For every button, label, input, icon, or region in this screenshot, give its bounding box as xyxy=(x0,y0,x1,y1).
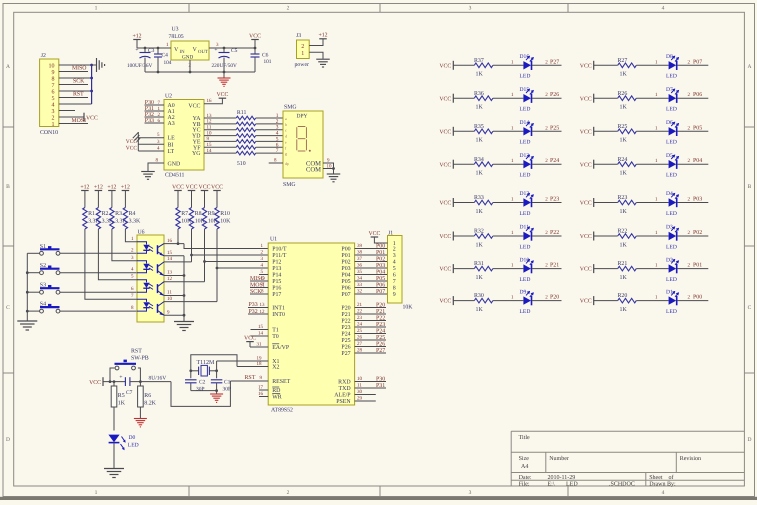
wire R24 to D5 xyxy=(636,158,668,164)
wire U1 P25 xyxy=(355,335,386,341)
switch S2 xyxy=(40,263,60,274)
net label P07 xyxy=(693,59,702,65)
svg-text:220UF/50V: 220UF/50V xyxy=(212,63,237,69)
wire D14 to P25 xyxy=(532,125,562,131)
svg-text:EA/VP: EA/VP xyxy=(272,345,290,351)
svg-text:PSEN: PSEN xyxy=(336,399,351,405)
svg-text:P15: P15 xyxy=(272,279,281,285)
svg-text:2: 2 xyxy=(287,490,290,496)
wire U2 VCC pin16 xyxy=(204,98,222,104)
junction S2 rail xyxy=(26,271,29,274)
svg-text:LED: LED xyxy=(520,74,531,80)
svg-text:R30: R30 xyxy=(474,293,484,299)
net label VCC (U2 LT) xyxy=(126,146,138,152)
wire U6 emitters to ground xyxy=(164,256,184,321)
svg-text:dp: dp xyxy=(285,162,289,166)
ground (U6 emitters) xyxy=(174,322,194,331)
wire VCC to R21 xyxy=(594,268,618,270)
wire J2 pin8 to bus xyxy=(59,77,92,79)
wire U2 BI xyxy=(138,139,164,145)
svg-text:1K: 1K xyxy=(476,171,484,177)
svg-text:P03: P03 xyxy=(693,197,702,203)
svg-text:R3: R3 xyxy=(115,211,122,217)
power port VCC (R7) xyxy=(172,184,184,207)
svg-text:P23: P23 xyxy=(550,197,559,203)
svg-text:R32: R32 xyxy=(474,229,484,235)
LED D11 xyxy=(520,225,534,251)
power port VCC (LED row P06) xyxy=(580,94,594,103)
LED D16 xyxy=(520,54,534,80)
svg-text:LED: LED xyxy=(666,140,677,146)
svg-text:Title: Title xyxy=(519,434,530,441)
wire U1 WR stub xyxy=(258,391,268,397)
LED D13 xyxy=(520,153,534,179)
svg-text:1K: 1K xyxy=(476,105,484,111)
wire VCC to J1 pin1 xyxy=(374,237,387,243)
net label P05 xyxy=(693,125,702,131)
wire R31 to D10 xyxy=(493,263,524,269)
svg-text:16: 16 xyxy=(167,238,173,244)
connector J2 (CON10) xyxy=(40,53,59,136)
svg-text:1: 1 xyxy=(95,490,98,496)
decoder U2 CD4511 xyxy=(164,94,204,179)
wire J3 pin1 to ground xyxy=(309,52,323,59)
ground (U3, red) xyxy=(218,72,231,86)
svg-text:VCC: VCC xyxy=(86,115,98,121)
svg-text:C1: C1 xyxy=(224,379,231,385)
wire D12 to P23 xyxy=(532,197,562,203)
svg-text:P00: P00 xyxy=(376,243,385,249)
svg-text:A: A xyxy=(748,64,752,70)
svg-text:23: 23 xyxy=(357,315,363,321)
svg-text:R23: R23 xyxy=(618,195,628,201)
svg-text:VCC: VCC xyxy=(580,63,592,69)
svg-text:P07: P07 xyxy=(693,59,702,65)
svg-text:R2: R2 xyxy=(102,211,109,217)
svg-text:R20: R20 xyxy=(618,293,628,299)
wire D9 to P20 xyxy=(532,295,562,301)
svg-text:P14: P14 xyxy=(272,273,281,279)
svg-text:AT89S52: AT89S52 xyxy=(271,408,293,414)
wire S1 to U6 xyxy=(60,252,137,254)
U2 output pin numbers xyxy=(207,113,213,154)
capacitor C6 101 xyxy=(251,48,272,72)
power port VCC (LED row P22) xyxy=(439,232,453,241)
junction S4 rail xyxy=(26,310,29,313)
svg-text:30P: 30P xyxy=(196,386,205,392)
SMG pin numbers 1-7 xyxy=(276,113,279,154)
LED D15 xyxy=(520,87,534,113)
svg-text:P24: P24 xyxy=(376,328,385,334)
capacitor C2 30P xyxy=(185,379,206,392)
wire VCC to R27 xyxy=(594,64,618,66)
net label P32 xyxy=(145,112,161,118)
LED D1 xyxy=(666,289,679,315)
svg-text:D9: D9 xyxy=(520,289,527,295)
wire SMG pin8 stub xyxy=(269,157,283,163)
svg-text:P21: P21 xyxy=(550,263,559,269)
wire crystal ground rail xyxy=(191,390,217,392)
svg-text:3: 3 xyxy=(393,253,396,259)
svg-text:+12: +12 xyxy=(318,33,327,39)
svg-text:26: 26 xyxy=(357,335,363,341)
svg-text:C3: C3 xyxy=(148,48,155,54)
svg-text:LED: LED xyxy=(666,309,677,315)
svg-text:15: 15 xyxy=(258,324,264,330)
svg-text:CD4511: CD4511 xyxy=(165,173,185,179)
svg-text:12: 12 xyxy=(167,276,173,282)
resistor R36 1K xyxy=(474,91,493,111)
wire J2 pin4 to bus xyxy=(59,103,92,105)
svg-text:101: 101 xyxy=(264,59,272,65)
svg-text:P17: P17 xyxy=(272,292,281,298)
svg-text:R11: R11 xyxy=(237,110,247,116)
wire R33 to D12 xyxy=(493,197,524,203)
svg-text:14: 14 xyxy=(258,331,264,337)
svg-text:38: 38 xyxy=(357,250,363,256)
display SMG (7-seg DPY) xyxy=(283,105,323,189)
power port VCC (LED row P21) xyxy=(439,264,453,273)
junction bottom C5 xyxy=(223,71,226,74)
resistor R1 3.3K xyxy=(83,208,101,230)
resistor R2 3.3K xyxy=(96,208,114,230)
wire D7 to P06 xyxy=(677,92,708,98)
svg-text:VCC: VCC xyxy=(439,267,451,273)
LED D2 xyxy=(666,257,679,283)
svg-text:+: + xyxy=(135,47,138,53)
svg-text:R33: R33 xyxy=(474,195,484,201)
svg-text:4: 4 xyxy=(393,260,396,266)
svg-text:LED: LED xyxy=(566,482,578,488)
svg-text:R10: R10 xyxy=(220,211,230,217)
wire U6 pin16 collector to U1 P10 xyxy=(164,229,268,249)
svg-text:U3: U3 xyxy=(172,27,179,33)
resistor R10 10K xyxy=(215,208,231,230)
svg-text:28: 28 xyxy=(357,348,363,354)
svg-text:X2: X2 xyxy=(272,365,279,371)
ground (D0) xyxy=(104,469,124,478)
wire R3 to U6 pin3 xyxy=(112,229,137,261)
svg-text:2: 2 xyxy=(301,44,304,50)
power port +12 (R2) xyxy=(94,184,103,207)
svg-text:J3: J3 xyxy=(296,33,301,39)
resistor R34 1K xyxy=(474,157,493,177)
svg-text:P24: P24 xyxy=(341,332,350,338)
svg-text:18: 18 xyxy=(257,361,263,367)
resistor R31 1K xyxy=(474,261,493,281)
svg-text:T0: T0 xyxy=(272,334,279,340)
svg-text:P26: P26 xyxy=(341,345,350,351)
svg-text:3: 3 xyxy=(52,109,55,115)
resistor R20 1K xyxy=(618,293,637,313)
svg-text:SCK: SCK xyxy=(73,79,85,85)
svg-text:ALE/P: ALE/P xyxy=(334,393,351,399)
resistor R32 1K xyxy=(474,229,493,249)
svg-text:R1: R1 xyxy=(88,211,95,217)
svg-text:P27: P27 xyxy=(341,351,350,357)
net label VCC (U2 BI) xyxy=(126,139,138,145)
svg-text:LT: LT xyxy=(168,149,175,155)
svg-text:V: V xyxy=(174,47,179,53)
wire U1 MOSI xyxy=(250,282,268,288)
svg-text:35: 35 xyxy=(357,269,363,275)
svg-text:1K: 1K xyxy=(620,242,628,248)
ground (J2, rotated right) xyxy=(92,58,105,72)
svg-text:P10/T: P10/T xyxy=(272,247,287,253)
svg-text:9: 9 xyxy=(393,292,396,298)
wire U1 P24 xyxy=(355,328,386,334)
wire R1 to U6 pin7 xyxy=(85,229,137,299)
resistor network R11 510 xyxy=(204,110,283,167)
svg-text:6: 6 xyxy=(393,273,396,279)
svg-text:LED: LED xyxy=(128,442,139,448)
svg-text:VCC: VCC xyxy=(439,96,451,102)
wire VCC to R20 xyxy=(594,300,618,302)
wire R4 to U6 pin1 xyxy=(125,229,137,242)
wire R26 to D7 xyxy=(636,92,668,98)
LED D4 xyxy=(666,191,679,217)
wire U3 GND pin down xyxy=(189,60,191,72)
svg-text:9: 9 xyxy=(52,70,55,76)
power port VCC (LED row P01) xyxy=(580,264,594,273)
wire VCC to R34 xyxy=(453,163,474,165)
svg-text:10K: 10K xyxy=(403,305,414,311)
svg-text:C4: C4 xyxy=(162,53,169,59)
svg-text:D8: D8 xyxy=(666,54,673,60)
svg-text:P25: P25 xyxy=(341,338,350,344)
svg-text:C7: C7 xyxy=(126,390,133,396)
svg-text:R22: R22 xyxy=(618,229,628,235)
junction J2 bus pin6 xyxy=(90,90,93,93)
wire RST loop xyxy=(171,381,230,406)
LED D8 xyxy=(666,54,679,80)
wire R22 to D3 xyxy=(636,230,668,236)
wire U1 T1 stub xyxy=(251,324,269,330)
svg-text:COM: COM xyxy=(306,167,321,174)
svg-text:D12: D12 xyxy=(520,191,530,197)
wire U1 P07 to J1 xyxy=(355,289,388,295)
svg-text:VCC: VCC xyxy=(580,234,592,240)
wire J2 pin7 (SCK) xyxy=(59,84,88,86)
svg-text:D5: D5 xyxy=(666,153,673,159)
power port VCC (LED row P24) xyxy=(439,160,453,169)
wire U1 INT0 xyxy=(248,309,268,315)
svg-text:24: 24 xyxy=(357,322,363,328)
svg-text:P11/T: P11/T xyxy=(272,253,287,259)
resistor R8 10K xyxy=(189,208,205,230)
wire U1 P21 xyxy=(355,309,386,315)
resistor R9 10K xyxy=(202,208,218,230)
wire R21 to D2 xyxy=(636,263,668,269)
junction reset right xyxy=(139,380,142,383)
wire VCC to R36 xyxy=(453,97,474,99)
svg-text:1K: 1K xyxy=(620,72,628,78)
wire U6 pin12 collector to U1 P12 xyxy=(164,229,268,282)
svg-text:g: g xyxy=(285,152,287,156)
svg-text:VCC: VCC xyxy=(580,129,592,135)
svg-text:DPY: DPY xyxy=(297,114,308,120)
power port VCC (R8) xyxy=(186,184,198,207)
svg-text:100UF/36V: 100UF/36V xyxy=(127,63,152,69)
wire D10 to P21 xyxy=(532,263,562,269)
svg-text:10: 10 xyxy=(357,376,363,382)
net label P02 xyxy=(693,230,702,236)
svg-text:LED: LED xyxy=(666,244,677,250)
svg-text:1: 1 xyxy=(301,51,304,57)
svg-text:1K: 1K xyxy=(476,307,484,313)
wire U1 P23 xyxy=(355,322,386,328)
svg-text:VCC: VCC xyxy=(439,201,451,207)
svg-text:1K: 1K xyxy=(476,209,484,215)
svg-text:29: 29 xyxy=(357,396,363,402)
wire VCC to R24 xyxy=(594,163,618,165)
svg-text:MOSI: MOSI xyxy=(250,282,265,288)
svg-text:LED: LED xyxy=(520,107,531,113)
svg-text:P22: P22 xyxy=(341,319,350,325)
svg-text:P06: P06 xyxy=(693,92,702,98)
svg-text:C: C xyxy=(6,305,10,311)
svg-text:P13: P13 xyxy=(272,266,281,272)
ground (switch rail) xyxy=(17,321,37,330)
power port VCC (LED row P03) xyxy=(580,198,594,207)
svg-text:16: 16 xyxy=(258,391,264,397)
svg-text:B: B xyxy=(6,184,10,190)
net label SCK (U1) xyxy=(250,289,262,295)
svg-text:D15: D15 xyxy=(520,87,530,93)
power port VCC (LED row P23) xyxy=(439,198,453,207)
svg-text:10: 10 xyxy=(327,163,333,169)
svg-text:P05: P05 xyxy=(341,279,350,285)
wire U1 EA/VP xyxy=(250,342,268,348)
svg-text:7: 7 xyxy=(276,148,279,154)
svg-text:VCC: VCC xyxy=(439,162,451,168)
wire J2 pin3 stub xyxy=(59,110,75,112)
svg-text:10K: 10K xyxy=(220,219,231,225)
svg-text:P31: P31 xyxy=(376,383,385,389)
wire crystal top xyxy=(191,355,237,379)
svg-text:C6: C6 xyxy=(262,53,269,59)
svg-text:1K: 1K xyxy=(476,275,484,281)
wire VCC to R23 xyxy=(594,202,618,204)
power port VCC (LED row P07) xyxy=(580,61,594,70)
svg-text:LED: LED xyxy=(666,277,677,283)
wire D16 to P27 xyxy=(532,59,562,65)
svg-text:78L05: 78L05 xyxy=(169,34,184,40)
power port VCC (EA/VP) xyxy=(244,335,256,341)
svg-text:36: 36 xyxy=(357,263,363,269)
wire U3 bottom rail xyxy=(145,71,255,73)
resistor R33 1K xyxy=(474,195,493,215)
ground (SMG COM) xyxy=(327,174,341,182)
svg-text:+12: +12 xyxy=(80,184,89,190)
net label MISO (U1) xyxy=(250,276,265,282)
svg-text:11: 11 xyxy=(357,383,362,389)
svg-text:+12: +12 xyxy=(94,184,103,190)
svg-text:VCC: VCC xyxy=(172,184,184,190)
LED D3 xyxy=(666,225,679,251)
net label P33 xyxy=(145,118,161,124)
svg-text:R36: R36 xyxy=(474,91,484,97)
optocoupler U6 xyxy=(137,230,164,323)
LED D10 xyxy=(520,257,534,283)
wire U1 PSEN stub xyxy=(355,396,376,402)
power port VCC (U2) xyxy=(216,92,228,98)
svg-text:d: d xyxy=(285,135,287,139)
wire J2 pin5 (RST) xyxy=(59,97,88,99)
svg-text:OUT: OUT xyxy=(198,49,208,55)
wire R27 to D8 xyxy=(636,59,668,65)
svg-text:2: 2 xyxy=(287,6,290,12)
svg-text:RST: RST xyxy=(245,375,256,381)
svg-text:VCC: VCC xyxy=(580,299,592,305)
svg-text:P27: P27 xyxy=(376,348,385,354)
svg-text:RST: RST xyxy=(131,349,142,355)
svg-text:1K: 1K xyxy=(620,105,628,111)
svg-text:VCC: VCC xyxy=(244,335,256,341)
wire D2 to P01 xyxy=(677,263,708,269)
net label P20 xyxy=(550,295,559,301)
wire VCC to R26 xyxy=(594,97,618,99)
wire D4 to P03 xyxy=(677,197,708,203)
svg-text:A4: A4 xyxy=(521,464,528,470)
svg-text:File:: File: xyxy=(519,481,530,488)
resistor R24 1K xyxy=(618,157,637,177)
net label P30 xyxy=(145,100,161,106)
svg-text:39: 39 xyxy=(357,243,363,249)
svg-text:Size: Size xyxy=(519,456,530,462)
svg-text:8U/16V: 8U/16V xyxy=(149,375,167,381)
svg-text:R8: R8 xyxy=(195,211,202,217)
LED D0 xyxy=(108,435,138,468)
svg-text:D13: D13 xyxy=(520,153,530,159)
svg-text:510: 510 xyxy=(237,161,246,167)
wire U1 X2 xyxy=(237,361,268,367)
wire net P30 to U2 xyxy=(145,104,165,106)
svg-text:P30: P30 xyxy=(376,376,385,382)
svg-text:8.2K: 8.2K xyxy=(144,401,156,407)
wire +12 rail to U3 VIN xyxy=(137,47,171,49)
svg-text:2: 2 xyxy=(52,115,55,121)
svg-text:16: 16 xyxy=(207,98,213,104)
svg-text:12: 12 xyxy=(260,309,266,315)
svg-text:P03: P03 xyxy=(341,266,350,272)
svg-text:1: 1 xyxy=(95,6,98,12)
wire U1 ALE stub xyxy=(355,389,376,395)
svg-text:TXD: TXD xyxy=(338,386,351,392)
svg-text:32: 32 xyxy=(357,289,363,295)
svg-text:1K: 1K xyxy=(476,138,484,144)
U6 right pin numbers xyxy=(167,238,173,316)
resistor network J1 10K xyxy=(388,231,414,311)
svg-text:10: 10 xyxy=(167,296,173,302)
svg-text:VCC: VCC xyxy=(439,299,451,305)
svg-text:P04: P04 xyxy=(693,158,702,164)
power port VCC (LED row P27) xyxy=(439,61,453,70)
svg-text:6: 6 xyxy=(52,89,55,95)
svg-text:R21: R21 xyxy=(618,261,628,267)
svg-text:22: 22 xyxy=(357,309,363,315)
net label P01 xyxy=(693,263,702,269)
switch S3 xyxy=(40,283,60,294)
power port VCC at J2 pin2 xyxy=(84,113,98,122)
resistor R21 1K xyxy=(618,261,637,281)
power port VCC (LED row P25) xyxy=(439,127,453,136)
wire D3 to P02 xyxy=(677,230,708,236)
power port VCC (LED row P02) xyxy=(580,232,594,241)
vertical tie LE/BI/LT xyxy=(137,132,139,151)
svg-text:+12: +12 xyxy=(132,33,141,39)
svg-text:R4: R4 xyxy=(129,211,136,217)
